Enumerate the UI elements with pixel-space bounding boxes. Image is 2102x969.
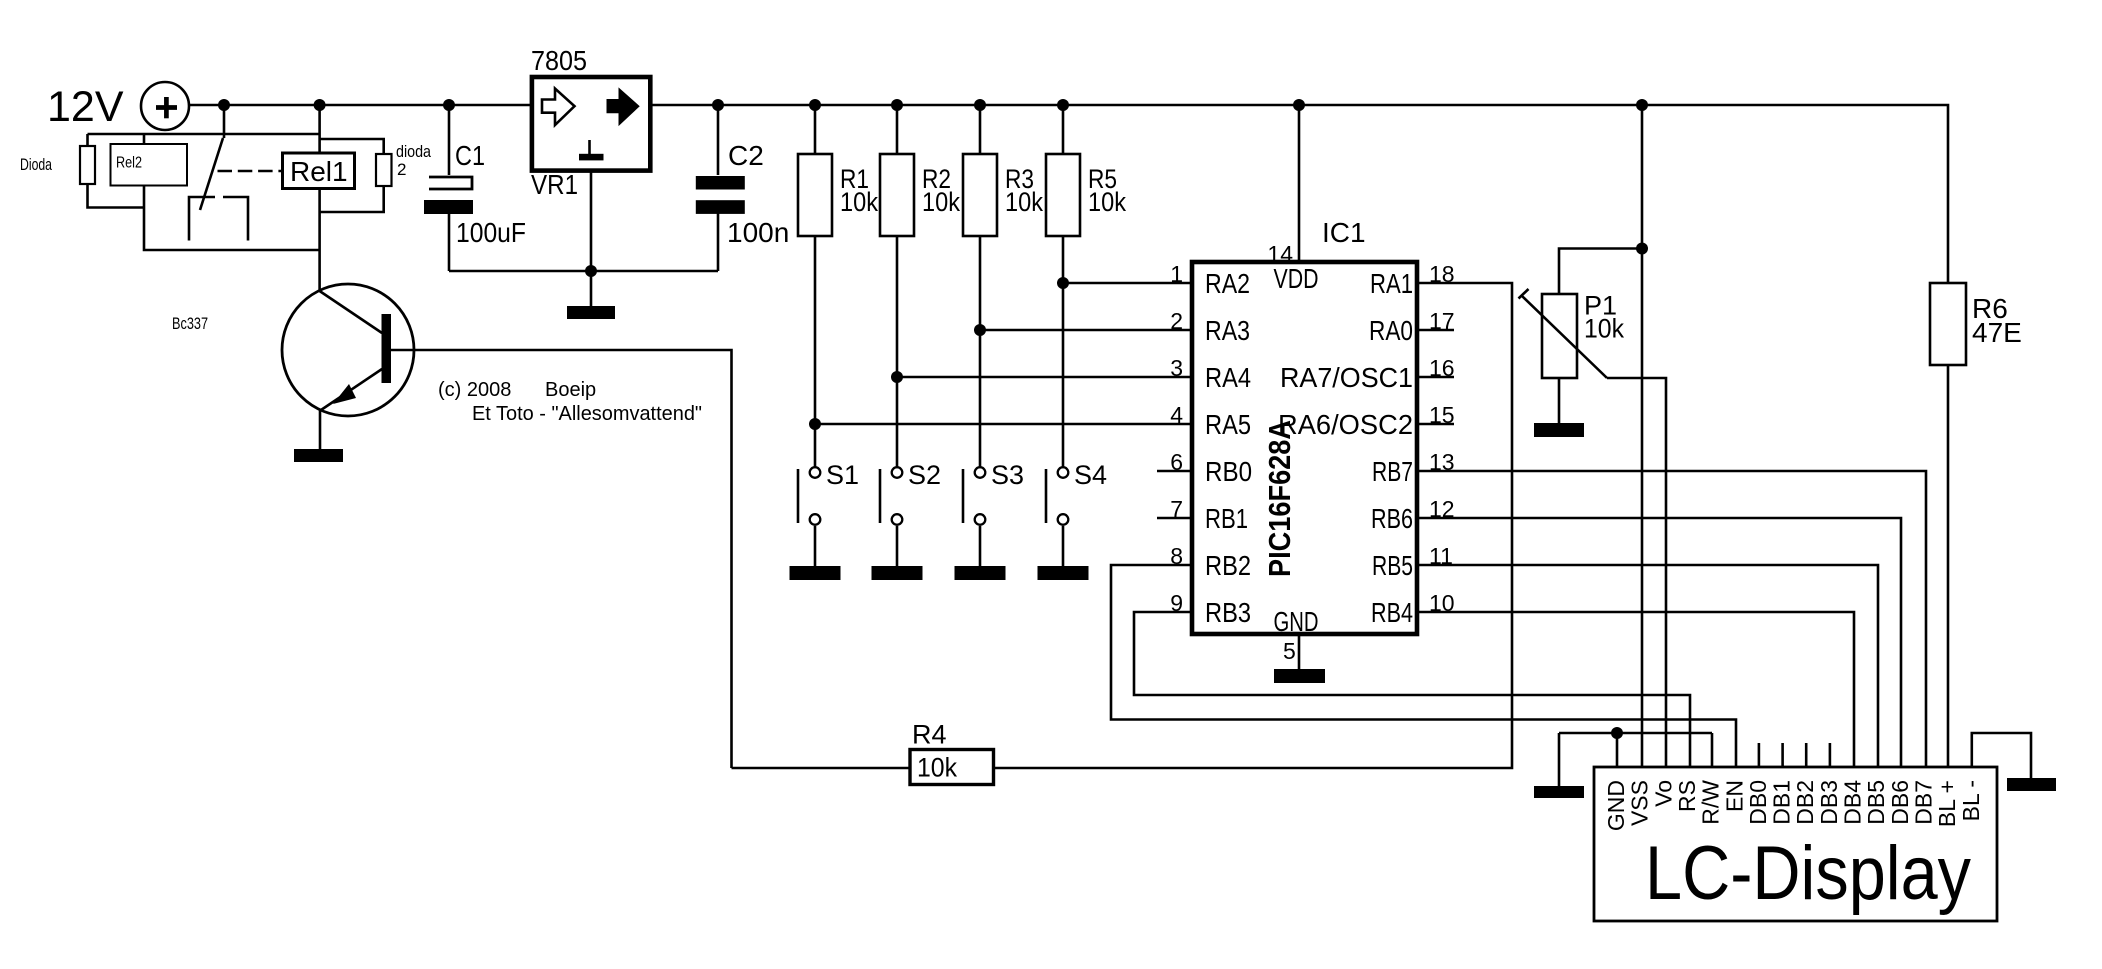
relay coil Rel2 — [111, 144, 188, 186]
svg-text:10k: 10k — [1005, 187, 1043, 217]
junction: P1 top tap — [1636, 243, 1648, 255]
svg-text:DB6: DB6 — [1887, 780, 1913, 825]
svg-text:RB5: RB5 — [1372, 550, 1413, 581]
svg-text:RS: RS — [1674, 780, 1700, 812]
junction: bus/relay switch — [218, 99, 230, 111]
wire: 7805 ground pin — [590, 170, 593, 306]
wire: emitter to ground — [319, 410, 322, 449]
svg-text:10k: 10k — [840, 187, 878, 217]
wire: RA3 net from R3 to pin 2 — [980, 329, 1192, 332]
pin stub 15 RA6/OSC2 — [1417, 423, 1454, 426]
resistor R1 — [798, 154, 832, 236]
svg-text:RA5: RA5 — [1205, 409, 1251, 440]
svg-text:7805: 7805 — [531, 45, 587, 76]
svg-text:C2: C2 — [728, 140, 764, 171]
wire: S1 to ground — [814, 526, 817, 566]
junction: bus/Rel1 — [314, 99, 326, 111]
ground (transistor emitter) — [294, 449, 343, 462]
switch S3 — [963, 467, 985, 525]
ground (S3) — [955, 566, 1006, 580]
relay contact left terminal bracket — [189, 197, 215, 241]
svg-text:VSS: VSS — [1627, 780, 1653, 826]
svg-text:Et Toto - "Allesomvattend": Et Toto - "Allesomvattend" — [472, 403, 702, 425]
svg-text:DB7: DB7 — [1911, 780, 1937, 825]
svg-text:10k: 10k — [1584, 314, 1624, 344]
junction: bus/R1 — [809, 99, 821, 111]
svg-text:DB1: DB1 — [1769, 780, 1795, 825]
pin stub DB2 — [1805, 743, 1808, 767]
svg-text:RB2: RB2 — [1205, 550, 1251, 581]
wire: RA4 net from R2 to pin 3 — [897, 376, 1192, 379]
switch S1 — [798, 467, 820, 525]
resistor R2 — [880, 154, 914, 236]
svg-text:12V: 12V — [47, 83, 124, 131]
svg-text:DB4: DB4 — [1840, 780, 1866, 825]
svg-text:100n: 100n — [727, 217, 789, 248]
wire: RA2 net from R5 to pin 1 — [1063, 282, 1192, 285]
svg-text:dioda: dioda — [396, 142, 431, 161]
ground (S1) — [790, 566, 841, 580]
7805 input arrow (hollow) — [542, 89, 575, 126]
svg-text:PIC16F628A: PIC16F628A — [1262, 420, 1297, 577]
wire: IC1 GND pin 5 — [1298, 634, 1301, 669]
junction: bus/R5 — [1057, 99, 1069, 111]
ground (S4) — [1038, 566, 1089, 580]
diode dioda 2 — [376, 154, 392, 186]
svg-text:GND: GND — [1603, 780, 1629, 831]
svg-text:DB0: DB0 — [1745, 780, 1771, 825]
svg-text:RA4: RA4 — [1205, 362, 1251, 393]
resistor R3 — [963, 154, 997, 236]
svg-text:GND: GND — [1274, 606, 1319, 637]
svg-text:DB2: DB2 — [1792, 780, 1818, 825]
svg-text:EN: EN — [1721, 780, 1747, 812]
LC-Display module — [1594, 767, 1997, 921]
svg-text:R4: R4 — [912, 720, 947, 750]
wire: S2 to ground — [896, 526, 899, 566]
svg-text:Dioda: Dioda — [20, 155, 52, 174]
wire: R2 leads down to S2 — [896, 105, 899, 467]
wire: R1 leads down to S1 — [814, 105, 817, 467]
svg-text:1: 1 — [1170, 261, 1183, 287]
svg-text:3: 3 — [1170, 355, 1183, 381]
voltage regulator U VR1 7805 — [532, 77, 650, 171]
wire: C1 bottom lead — [448, 214, 451, 271]
svg-text:S3: S3 — [991, 460, 1024, 490]
resistor R4 — [910, 750, 994, 785]
pin stub 16 RA7/OSC1 — [1417, 376, 1454, 379]
junction: bus/R3 — [974, 99, 986, 111]
wire: GND/RW tie bar — [1559, 732, 1712, 735]
wire: 12V link to Rel2 and Dioda — [88, 133, 320, 136]
7805 internal ground pin symbol — [579, 140, 604, 160]
svg-text:RB4: RB4 — [1371, 597, 1413, 628]
svg-text:RA2: RA2 — [1205, 268, 1250, 299]
pin stub DB1 — [1781, 743, 1784, 767]
wire: Dioda top lead — [86, 134, 89, 146]
svg-text:RA6/OSC2: RA6/OSC2 — [1278, 409, 1413, 440]
12V supply terminal — [141, 82, 189, 130]
svg-text:Bc337: Bc337 — [172, 314, 208, 333]
pin stub 17 RA0 — [1417, 329, 1454, 332]
dashed mechanical link to Rel1 — [218, 170, 284, 173]
junction: regulator ground node — [585, 265, 597, 277]
ground (IC1) — [1274, 669, 1325, 683]
wire: C2 top lead — [717, 105, 720, 175]
svg-text:(c) 2008: (c) 2008 — [438, 379, 511, 401]
svg-text:10k: 10k — [917, 753, 957, 783]
svg-text:R/W: R/W — [1698, 780, 1724, 825]
wire: RB3 pin 9 to LCD RS — [1134, 612, 1690, 767]
svg-text:RB7: RB7 — [1372, 456, 1413, 487]
junction: R2/RA4 — [891, 371, 903, 383]
svg-text:BL +: BL + — [1934, 780, 1960, 827]
wire: P1 bottom to ground — [1558, 378, 1561, 423]
wire: LCD R/W pin — [1711, 733, 1714, 767]
wire: C1 top lead — [448, 105, 451, 175]
ground (LCD BL-) — [2007, 778, 2056, 791]
junction: bus/VDD — [1293, 99, 1305, 111]
svg-text:Vo: Vo — [1650, 780, 1676, 807]
resistor R6 — [1930, 283, 1966, 365]
capacitor C2 — [696, 176, 745, 214]
ground (LCD GND) — [1534, 786, 1584, 798]
wire: ground link C1-7805-C2 — [449, 270, 718, 273]
wire: dioda 2 bottom link — [320, 185, 384, 212]
junction: bus/R2 — [891, 99, 903, 111]
wire: LCD GND pin — [1616, 733, 1619, 767]
svg-text:2: 2 — [1170, 308, 1183, 334]
svg-text:S1: S1 — [826, 460, 859, 490]
svg-text:5: 5 — [1283, 638, 1296, 664]
svg-text:10k: 10k — [922, 187, 960, 217]
svg-text:Boeip: Boeip — [545, 379, 596, 401]
relay contact blade — [200, 138, 223, 210]
svg-text:RA3: RA3 — [1205, 315, 1250, 346]
relay coil Rel1 — [283, 153, 355, 189]
potentiometer P1 — [1542, 294, 1577, 378]
junction: R3/RA3 — [974, 324, 986, 336]
wire: RB5 pin 11 to LCD DB5 — [1417, 565, 1878, 767]
svg-text:VDD: VDD — [1274, 263, 1319, 294]
svg-text:S4: S4 — [1074, 460, 1107, 490]
wire: RB4 pin 10 to LCD DB4 — [1417, 612, 1854, 767]
wire: LCD BL- to ground — [1972, 733, 2031, 778]
svg-text:RB3: RB3 — [1205, 597, 1251, 628]
wire: RB7 pin 13 to LCD DB7 — [1417, 471, 1926, 767]
svg-text:RB6: RB6 — [1371, 503, 1413, 534]
svg-text:C1: C1 — [455, 140, 485, 171]
svg-text:RB0: RB0 — [1205, 456, 1252, 487]
svg-text:LC-Display: LC-Display — [1645, 831, 1971, 916]
7805 output arrow (filled) — [607, 89, 639, 126]
wire: LCD ground drop — [1558, 733, 1561, 786]
svg-text:Rel1: Rel1 — [290, 156, 348, 187]
svg-text:4: 4 — [1170, 402, 1183, 428]
pin stub DB3 — [1829, 743, 1832, 767]
pin stub 7 RB1 — [1157, 517, 1192, 520]
junction: LCD GND node — [1611, 727, 1623, 739]
wire: RA5 net from R1 to pin 4 — [815, 423, 1192, 426]
wire: S3 to ground — [979, 526, 982, 566]
wire: Dioda bottom lead — [88, 184, 145, 208]
svg-text:IC1: IC1 — [1322, 217, 1366, 248]
svg-text:S2: S2 — [908, 460, 941, 490]
ground (regulator) — [567, 306, 615, 319]
pin stub DB0 — [1758, 743, 1761, 767]
wire: Rel1 to dioda 2 top link — [320, 139, 384, 154]
svg-text:RA7/OSC1: RA7/OSC1 — [1280, 362, 1413, 393]
wire: Rel2 top lead — [143, 134, 146, 144]
transistor Q1 Bc337 — [282, 284, 414, 416]
wire: IC1 VDD pin 14 — [1298, 105, 1301, 262]
svg-text:DB3: DB3 — [1816, 780, 1842, 825]
junction: R5/RA2 — [1057, 277, 1069, 289]
svg-text:2: 2 — [397, 160, 406, 179]
wire: +12V top bus — [189, 105, 1948, 283]
relay contact right terminal bracket — [223, 197, 248, 241]
switch S4 — [1046, 467, 1068, 525]
wire: Rel2 bottom lead to collector node — [144, 186, 320, 251]
junction: bus/P1 rail — [1636, 99, 1648, 111]
svg-text:10k: 10k — [1088, 187, 1126, 217]
P1 wiper arrow — [1519, 289, 1608, 378]
svg-text:RA1: RA1 — [1370, 268, 1413, 299]
wire: P1 top lead — [1559, 249, 1642, 295]
svg-text:47E: 47E — [1972, 317, 2022, 348]
wire: 5V to P1 and LCD VSS — [1641, 105, 1644, 767]
svg-text:DB5: DB5 — [1863, 780, 1889, 825]
svg-text:RA0: RA0 — [1369, 315, 1413, 346]
wire: R3 leads down to S3 — [979, 105, 982, 467]
wire: P1 wiper to LCD Vo — [1607, 378, 1666, 767]
wire: 5V rail from R6 down to LCD BL+ — [1947, 365, 1950, 767]
wire: S4 to ground — [1062, 526, 1065, 566]
wire: branch from bus to relay contact — [223, 105, 226, 138]
pin stub 6 RB0 — [1157, 470, 1192, 473]
switch S2 — [880, 467, 902, 525]
wire: R5 leads down to S4 — [1062, 105, 1065, 467]
wire: bus through Rel1 coil down to transistor collector — [318, 105, 321, 291]
resistor R5 — [1046, 154, 1080, 236]
wire: base wire to R4 — [391, 350, 732, 768]
capacitor C1 (electrolytic) — [424, 177, 473, 214]
wire: RB6 pin 12 to LCD DB6 — [1417, 518, 1901, 767]
ground (S2) — [872, 566, 923, 580]
junction: R1/RA5 — [809, 418, 821, 430]
IC U1 PIC16F628A body — [1192, 262, 1417, 634]
wire: C2 bottom lead — [717, 212, 720, 271]
svg-text:VR1: VR1 — [531, 169, 578, 200]
svg-text:RB1: RB1 — [1205, 503, 1248, 534]
junction: bus/C1 — [443, 99, 455, 111]
diode Dioda — [80, 146, 95, 184]
junction: bus/C2 — [712, 99, 724, 111]
wire: RB2 pin 8 to LCD EN — [1111, 565, 1736, 767]
wire: RA1 pin 18 to R4 — [732, 283, 1513, 768]
svg-text:100uF: 100uF — [456, 217, 526, 248]
svg-text:Rel2: Rel2 — [116, 155, 142, 172]
svg-text:BL -: BL - — [1958, 780, 1984, 821]
ground (P1) — [1534, 423, 1584, 437]
